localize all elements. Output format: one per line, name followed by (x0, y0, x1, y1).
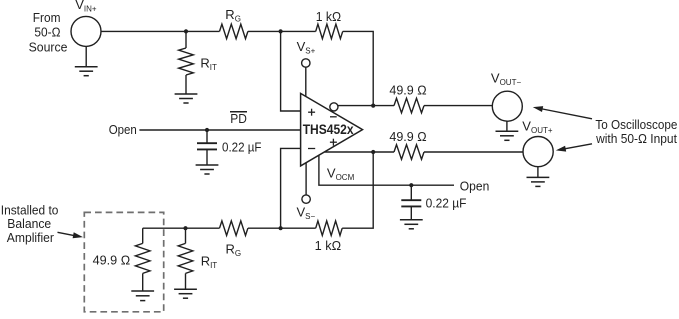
wire 1k to RG bottom (248, 227, 316, 229)
svg-text:Open: Open (109, 122, 137, 137)
op-amp +output symbol (330, 139, 337, 146)
node junction RIT top (184, 29, 188, 33)
resistor RIT (top) (185, 31, 187, 48)
wire PD line (139, 129, 300, 131)
wire source to ground (85, 46, 87, 66)
op-amp U1 THS452x (301, 93, 363, 165)
resistor RG (top) (220, 24, 248, 39)
resistor 49.9 Ω (bottom output) (373, 151, 394, 153)
ground (VOUT−) (496, 130, 519, 132)
svg-text:Installed to: Installed to (1, 202, 59, 217)
terminal VOUT+ (523, 137, 553, 167)
wire to −input (281, 148, 301, 228)
wire output bottom (325, 151, 374, 153)
wire feedback top (343, 31, 374, 105)
resistor RG (bottom) (220, 221, 248, 236)
arrow to VOUT+ (562, 144, 592, 150)
resistor RIT (bottom) (185, 228, 187, 243)
svg-text:From: From (33, 10, 61, 25)
capacitor 0.22 µF (PD) (206, 130, 208, 143)
wire feedback bottom (342, 152, 373, 228)
svg-text:To Oscilloscope: To Oscilloscope (595, 117, 677, 132)
svg-text:THS452x: THS452x (303, 122, 354, 137)
svg-text:Source: Source (29, 40, 68, 55)
wire bottom rail left (143, 227, 220, 229)
svg-text:1 kΩ: 1 kΩ (315, 238, 342, 253)
node junction PD cap (205, 128, 209, 132)
pin VOCM wire (319, 155, 454, 185)
node junction VOCM cap (409, 183, 413, 187)
svg-text:PD: PD (230, 111, 247, 126)
resistor 49.9 Ω (top output) (373, 105, 394, 107)
voltage source VIN+ (71, 16, 101, 46)
svg-text:Amplifier: Amplifier (7, 230, 55, 245)
ground (VOUT+) (527, 176, 550, 178)
terminal VOUT− (492, 91, 522, 121)
svg-text:Open: Open (460, 179, 490, 194)
resistor 49.9 Ω (balance, in dashed box) (142, 228, 144, 243)
svg-text:49.9 Ω: 49.9 Ω (389, 83, 426, 98)
svg-text:with 50-Ω Input: with 50-Ω Input (595, 131, 677, 146)
op-amp −input symbol (308, 148, 315, 150)
node junction +input column (279, 29, 283, 33)
resistor 1 kΩ (bottom) (316, 221, 343, 236)
capacitor 0.22 µF (VOCM) (410, 185, 412, 200)
dashed box installed-to-balance (84, 212, 163, 311)
node junction output top (371, 104, 375, 108)
svg-text:0.22 µF: 0.22 µF (426, 195, 467, 210)
ground (VOCM cap) (400, 219, 423, 221)
ground (RIT top) (175, 93, 198, 95)
svg-text:49.9 Ω: 49.9 Ω (389, 129, 426, 144)
terminal VS− (305, 163, 307, 195)
ground (source) (75, 66, 98, 68)
svg-text:1 kΩ: 1 kΩ (316, 9, 342, 24)
node junction output bottom (371, 150, 375, 154)
svg-text:49.9 Ω: 49.9 Ω (93, 253, 131, 268)
op-amp −output symbol (330, 116, 337, 118)
svg-text:0.22 µF: 0.22 µF (222, 140, 262, 155)
wire to +input (281, 31, 301, 111)
node junction RIT bottom (183, 226, 187, 230)
ground (balance resistor) (131, 290, 154, 292)
wire RG to 1k (248, 30, 316, 32)
terminal VS+ (302, 59, 310, 67)
op-amp +input symbol (308, 109, 315, 116)
node junction −input column (279, 226, 283, 230)
svg-text:Balance: Balance (7, 216, 51, 231)
op-amp inversion bubble (330, 103, 338, 111)
arrow to dashed box (58, 232, 77, 236)
wire output top (337, 105, 373, 107)
wire source to RG (101, 30, 220, 32)
svg-text:50-Ω: 50-Ω (34, 24, 60, 39)
arrow to VOUT− (540, 109, 592, 119)
ground (RIT bottom) (174, 288, 197, 290)
ground (PD cap) (196, 164, 219, 166)
resistor 1 kΩ (top) (316, 24, 343, 39)
